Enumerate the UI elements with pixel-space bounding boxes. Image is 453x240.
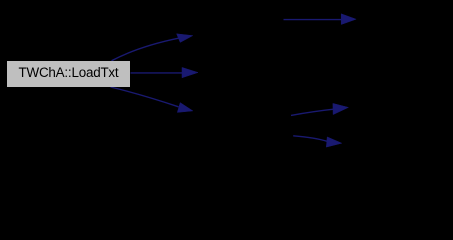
wire edges svg	[0, 0, 453, 173]
arrowhead middle right	[333, 103, 349, 114]
arrowhead top right	[341, 14, 356, 25]
node TWChA::LoadTxt	[7, 61, 130, 87]
edge bottom right : wire	[293, 136, 327, 142]
arrowhead lower middle	[177, 103, 193, 113]
edge to center middle node : wire	[131, 72, 184, 74]
arrowhead center middle	[182, 67, 198, 77]
edge top right : wire	[284, 19, 343, 21]
edge to lower middle node : wire	[111, 87, 179, 107]
arrowhead bottom right	[326, 137, 342, 147]
edge middle right : wire	[291, 109, 334, 115]
edge to upper middle node : wire	[112, 38, 179, 61]
arrowhead upper middle	[177, 34, 193, 43]
